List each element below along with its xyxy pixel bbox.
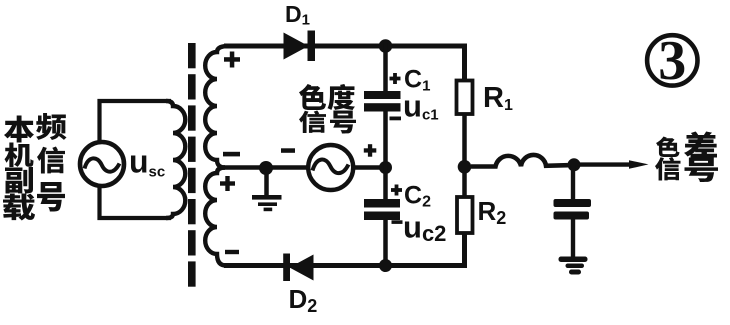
label + (secondary bottom, upper polarity): [220, 176, 235, 191]
label + (C2): [391, 185, 402, 196]
wire: chroma source to C1/C2 midpoint: [355, 165, 387, 170]
wire: bottom rail from secondary through D2 to R2: [224, 232, 465, 266]
transformer secondary winding, top half: [205, 46, 227, 168]
label 色度信号 (chroma signal): [299, 84, 356, 133]
transformer secondary winding, bottom half: [205, 168, 226, 266]
label - (secondary bottom, lower polarity): [225, 250, 239, 254]
source u_sc (subcarrier oscillator): [80, 142, 124, 186]
node: R1/R2 divider junction: [458, 160, 472, 174]
node: C1/C2 midpoint: [379, 161, 392, 174]
ground (output filter): [559, 257, 588, 275]
svg-text:3: 3: [658, 30, 686, 92]
ground (center tap): [264, 174, 269, 196]
wire: center tap to chroma source: [223, 165, 307, 170]
label: input signal 本机副载频信号: [3, 113, 67, 220]
wire: top rail from secondary through D1 to R1: [224, 46, 465, 81]
label - (C1): [390, 117, 402, 121]
capacitor C1: [383, 43, 388, 91]
node: bottom rail / C2 junction: [379, 259, 392, 272]
label - (C2): [392, 220, 403, 224]
node: output filter junction: [568, 158, 581, 171]
label - (chroma source left): [281, 148, 295, 153]
capacitor C2: [364, 199, 400, 220]
label + (C1): [390, 73, 401, 84]
transformer core (dashed): [188, 43, 196, 287]
transformer T primary winding: [166, 101, 185, 218]
resistor R1: [457, 81, 473, 115]
diode D1: [284, 31, 316, 62]
label + (secondary top, upper polarity): [224, 52, 240, 68]
wire: R1 to R2: [462, 114, 467, 197]
wire: output arrow: [580, 162, 631, 166]
node: top rail / C1 junction: [379, 39, 393, 53]
source u (chroma signal source): [308, 145, 353, 190]
capacitor (output filter): [571, 165, 575, 200]
wire: u_sc loop to transformer primary: [100, 101, 172, 218]
diode D2: [283, 254, 313, 282]
resistor R2: [457, 197, 473, 233]
label - (secondary top, lower polarity): [223, 152, 240, 157]
node: center-tap ground junction: [259, 161, 273, 175]
callout: figure number 3: [647, 35, 697, 85]
label 色差信号 (color-difference signal output): [655, 131, 718, 182]
inductor L (output filter): [471, 155, 568, 167]
label + (chroma source right): [364, 144, 377, 157]
